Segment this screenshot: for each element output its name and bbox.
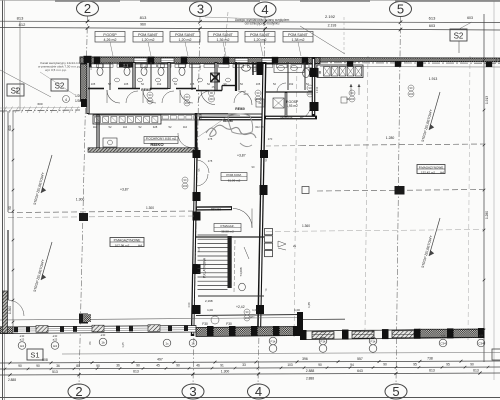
- svg-text:B: B: [319, 70, 322, 75]
- svg-text:200: 200: [148, 99, 153, 103]
- svg-text:603: 603: [429, 24, 435, 28]
- svg-text:1.913: 1.913: [429, 77, 438, 81]
- svg-text:+3,87: +3,87: [120, 188, 129, 192]
- svg-text:REI 260: REI 260: [211, 208, 222, 212]
- svg-text:91: 91: [220, 363, 224, 367]
- svg-text:90: 90: [176, 363, 180, 367]
- svg-text:613: 613: [133, 370, 139, 374]
- svg-text:95: 95: [446, 362, 450, 366]
- svg-text:613: 613: [429, 368, 435, 372]
- svg-text:813: 813: [15, 87, 19, 92]
- svg-text:90: 90: [136, 364, 140, 368]
- svg-text:1.280: 1.280: [386, 136, 395, 140]
- svg-text:90: 90: [383, 363, 387, 367]
- svg-text:ø25: ø25: [53, 338, 58, 342]
- svg-text:1,00: 1,00: [252, 308, 258, 312]
- svg-text:105: 105: [124, 82, 129, 86]
- svg-text:80: 80: [76, 364, 80, 368]
- svg-text:105: 105: [199, 65, 202, 70]
- svg-text:P.MAGAZ.: P.MAGAZ.: [221, 224, 235, 228]
- svg-text:F1k: F1k: [270, 340, 276, 344]
- svg-text:1c: 1c: [191, 342, 195, 346]
- svg-text:90: 90: [371, 330, 375, 334]
- svg-text:738: 738: [427, 356, 433, 360]
- svg-text:4: 4: [261, 2, 268, 17]
- svg-text:105: 105: [144, 65, 147, 70]
- svg-text:F1k: F1k: [370, 340, 376, 344]
- svg-text:52: 52: [139, 125, 142, 129]
- svg-text:52: 52: [240, 82, 243, 86]
- svg-text:45: 45: [156, 364, 160, 368]
- svg-text:C34: C34: [440, 342, 446, 346]
- svg-text:1,00: 1,00: [294, 308, 300, 312]
- svg-text:ø30: ø30: [20, 334, 25, 338]
- svg-text:603: 603: [467, 16, 473, 20]
- svg-text:1,38 m2: 1,38 m2: [292, 38, 305, 42]
- svg-text:osi istniejącego budynku: osi istniejącego budynku: [245, 22, 280, 26]
- svg-text:REI 260: REI 260: [223, 119, 233, 123]
- svg-text:61,06 m2: 61,06 m2: [228, 179, 241, 183]
- svg-text:90: 90: [224, 82, 227, 86]
- svg-text:200: 200: [183, 184, 188, 188]
- svg-text:557: 557: [357, 357, 363, 361]
- svg-text:2.888: 2.888: [8, 378, 16, 382]
- svg-text:813: 813: [140, 15, 147, 20]
- svg-text:P.OCHRONY 8,90 m2: P.OCHRONY 8,90 m2: [146, 137, 177, 141]
- svg-text:2.888: 2.888: [306, 377, 314, 381]
- svg-text:H4: H4: [53, 344, 57, 348]
- svg-text:2: 2: [75, 384, 82, 399]
- svg-text:1,20 m2: 1,20 m2: [179, 38, 192, 42]
- svg-text:POM.SANIT: POM.SANIT: [213, 33, 234, 37]
- svg-text:52: 52: [273, 82, 276, 86]
- svg-text:3: 3: [197, 2, 204, 17]
- svg-text:1,20 m2: 1,20 m2: [254, 38, 267, 42]
- svg-text:613: 613: [494, 57, 498, 62]
- svg-text:1c: 1c: [165, 342, 169, 346]
- svg-text:2: 2: [84, 1, 91, 16]
- svg-text:S2: S2: [454, 32, 464, 41]
- svg-text:5: 5: [397, 2, 404, 17]
- svg-text:33: 33: [242, 363, 246, 367]
- svg-text:ø34: ø34: [441, 334, 446, 338]
- svg-text:270: 270: [268, 137, 273, 141]
- svg-text:+2,42: +2,42: [236, 305, 245, 309]
- svg-text:52: 52: [207, 82, 210, 86]
- svg-text:POM.SANIT: POM.SANIT: [288, 33, 309, 37]
- svg-text:POM.SANIT: POM.SANIT: [175, 33, 196, 37]
- svg-text:36: 36: [56, 364, 60, 368]
- svg-text:1,20 m2: 1,20 m2: [142, 38, 155, 42]
- svg-text:513: 513: [52, 370, 58, 374]
- svg-text:90: 90: [36, 364, 40, 368]
- svg-text:90: 90: [318, 363, 322, 367]
- svg-text:ø30: ø30: [101, 333, 106, 337]
- svg-text:REI60: REI60: [141, 88, 151, 92]
- svg-text:328: 328: [153, 125, 158, 129]
- svg-text:1,65: 1,65: [307, 302, 311, 308]
- svg-text:613: 613: [473, 368, 479, 372]
- svg-text:5: 5: [392, 384, 399, 399]
- svg-text:90: 90: [252, 165, 255, 169]
- svg-text:ø34: ø34: [479, 334, 484, 338]
- svg-text:F30: F30: [187, 302, 191, 307]
- svg-text:PRZEDS.: PRZEDS.: [280, 116, 293, 120]
- svg-text:813: 813: [17, 16, 24, 21]
- svg-text:1.913: 1.913: [315, 86, 319, 93]
- svg-text:52: 52: [109, 125, 112, 129]
- svg-text:4: 4: [255, 384, 262, 399]
- svg-text:4,26 m2: 4,26 m2: [104, 38, 117, 42]
- svg-text:643: 643: [357, 369, 363, 373]
- svg-text:90: 90: [8, 206, 12, 210]
- svg-text:1.280: 1.280: [485, 211, 489, 219]
- svg-text:94: 94: [350, 363, 354, 367]
- svg-text:C34: C34: [478, 342, 484, 346]
- svg-text:1,00: 1,00: [207, 308, 213, 312]
- svg-text:REI60: REI60: [235, 107, 245, 111]
- svg-text:2.888: 2.888: [306, 369, 315, 373]
- svg-text:F1k: F1k: [320, 340, 326, 344]
- svg-text:52: 52: [169, 125, 172, 129]
- svg-text:3: 3: [189, 384, 196, 399]
- svg-text:110: 110: [183, 125, 188, 129]
- svg-text:1,36 m2: 1,36 m2: [217, 38, 230, 42]
- svg-text:960: 960: [140, 23, 146, 27]
- svg-text:110: 110: [123, 125, 128, 129]
- svg-text:497: 497: [157, 358, 163, 362]
- svg-text:1.300: 1.300: [8, 306, 12, 314]
- svg-text:200: 200: [350, 97, 355, 101]
- svg-text:90: 90: [96, 364, 100, 368]
- svg-text:90: 90: [470, 362, 474, 366]
- svg-text:ø30: ø30: [53, 334, 58, 338]
- svg-text:S1: S1: [30, 351, 39, 360]
- svg-text:613: 613: [429, 16, 436, 21]
- svg-text:95: 95: [413, 363, 417, 367]
- svg-text:F30: F30: [202, 322, 208, 326]
- svg-text:P.KLATKOWA: P.KLATKOWA: [203, 257, 207, 278]
- svg-text:REI 120: REI 120: [255, 125, 265, 129]
- svg-text:P.MAGAZYNOWE: P.MAGAZYNOWE: [114, 238, 142, 242]
- svg-text:2x: 2x: [293, 244, 297, 248]
- svg-text:86: 86: [88, 341, 92, 345]
- svg-text:wyl. 0,5 m n.p.p.: wyl. 0,5 m n.p.p.: [45, 68, 67, 72]
- svg-text:P.MAGAZYNOWE: P.MAGAZYNOWE: [419, 165, 443, 169]
- svg-text:90: 90: [271, 330, 275, 334]
- svg-text:H4: H4: [138, 244, 142, 248]
- svg-text:1.300: 1.300: [146, 206, 154, 210]
- svg-text:2.192: 2.192: [325, 14, 336, 19]
- svg-text:P.GOSP: P.GOSP: [103, 33, 117, 37]
- svg-text:1.360: 1.360: [302, 224, 310, 228]
- svg-text:46: 46: [196, 363, 200, 367]
- svg-text:105: 105: [90, 65, 93, 70]
- svg-text:38,98 m2: 38,98 m2: [221, 229, 234, 233]
- svg-text:36: 36: [116, 364, 120, 368]
- svg-text:215: 215: [197, 247, 201, 252]
- svg-text:105: 105: [256, 82, 261, 86]
- svg-text:52: 52: [141, 82, 144, 86]
- svg-text:278: 278: [208, 159, 213, 163]
- svg-text:105: 105: [254, 65, 257, 70]
- svg-text:90: 90: [321, 330, 325, 334]
- svg-text:2,198: 2,198: [205, 299, 213, 303]
- svg-text:200: 200: [209, 97, 214, 101]
- svg-text:200: 200: [409, 92, 414, 96]
- svg-text:2.193: 2.193: [328, 24, 337, 28]
- svg-text:278: 278: [208, 137, 213, 141]
- svg-text:74,008: 74,008: [239, 267, 243, 277]
- svg-text:POM.SANIT: POM.SANIT: [250, 33, 271, 37]
- svg-text:F30: F30: [226, 322, 232, 326]
- svg-text:162: 162: [289, 82, 294, 86]
- svg-text:1.913: 1.913: [485, 96, 489, 104]
- svg-text:ø25: ø25: [20, 338, 25, 342]
- svg-text:1,65: 1,65: [121, 342, 125, 348]
- svg-text:POM.SANIT: POM.SANIT: [138, 33, 159, 37]
- svg-text:52: 52: [108, 82, 111, 86]
- svg-text:1.300: 1.300: [221, 369, 230, 373]
- svg-text:+3,87: +3,87: [237, 154, 246, 158]
- svg-text:POM.KOM.: POM.KOM.: [226, 173, 242, 177]
- svg-text:600: 600: [8, 125, 12, 131]
- svg-text:103: 103: [287, 363, 293, 367]
- svg-text:H4: H4: [440, 171, 444, 175]
- svg-text:152,42 m2: 152,42 m2: [421, 171, 436, 175]
- svg-text:200: 200: [185, 101, 190, 105]
- svg-text:600: 600: [37, 102, 42, 106]
- svg-text:1b: 1b: [101, 341, 105, 345]
- svg-text:105: 105: [91, 82, 96, 86]
- svg-text:396: 396: [302, 357, 308, 361]
- svg-text:ø2.0: ø2.0: [244, 93, 249, 96]
- svg-text:52: 52: [174, 82, 177, 86]
- svg-text:WC: WC: [250, 315, 256, 319]
- svg-text:107,98 m2: 107,98 m2: [115, 244, 130, 248]
- svg-text:90: 90: [18, 364, 22, 368]
- svg-text:105: 105: [190, 82, 195, 86]
- svg-text:H4: H4: [20, 344, 24, 348]
- svg-text:162: 162: [157, 82, 162, 86]
- svg-text:1,93 m2: 1,93 m2: [286, 104, 298, 108]
- svg-text:508: 508: [42, 358, 48, 362]
- svg-text:1.300: 1.300: [76, 198, 85, 202]
- svg-text:REIKO: REIKO: [150, 142, 164, 147]
